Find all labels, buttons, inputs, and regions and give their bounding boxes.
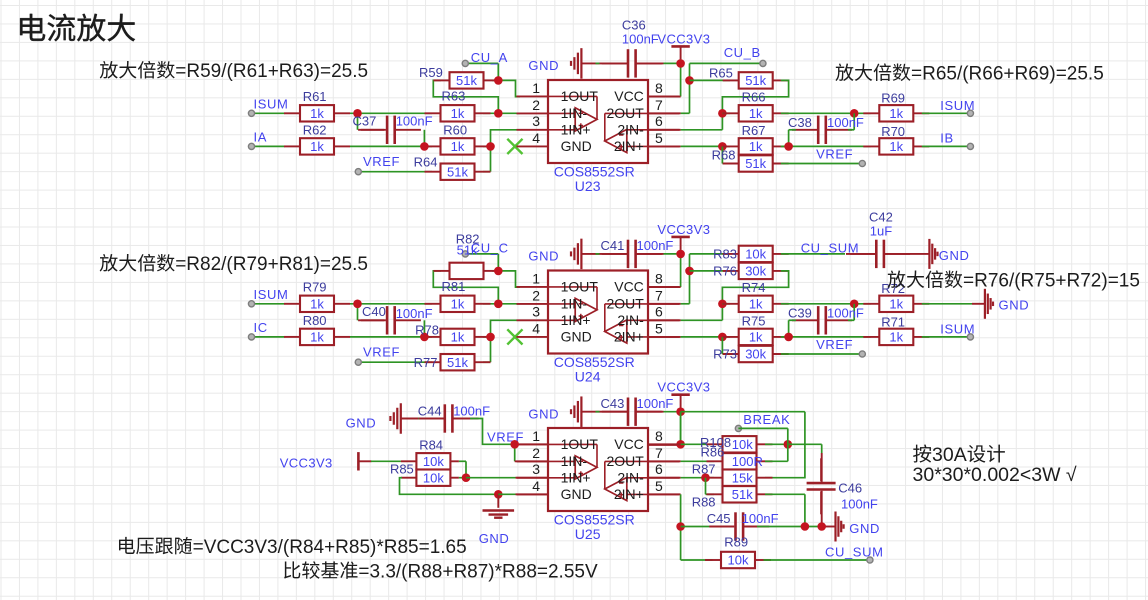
svg-text:U24: U24 xyxy=(575,369,601,385)
svg-text:2: 2 xyxy=(532,287,540,303)
svg-text:VREF: VREF xyxy=(363,154,400,169)
svg-text:C46: C46 xyxy=(838,480,862,495)
svg-text:U23: U23 xyxy=(575,178,601,194)
svg-text:C38: C38 xyxy=(788,115,812,130)
svg-text:1k: 1k xyxy=(310,296,324,311)
svg-text:1k: 1k xyxy=(889,139,903,154)
svg-text:GND: GND xyxy=(561,329,592,345)
svg-text:C36: C36 xyxy=(622,17,646,32)
svg-text:2OUT: 2OUT xyxy=(606,296,644,312)
svg-text:7: 7 xyxy=(655,445,663,461)
svg-text:3: 3 xyxy=(532,461,540,477)
svg-text:CU_SUM: CU_SUM xyxy=(825,545,884,560)
svg-text:R84: R84 xyxy=(419,438,443,453)
svg-text:1k: 1k xyxy=(889,330,903,345)
svg-text:30*30*0.002<3W √: 30*30*0.002<3W √ xyxy=(913,464,1077,486)
svg-text:100nF: 100nF xyxy=(637,238,674,253)
svg-text:1IN-: 1IN- xyxy=(561,453,588,469)
svg-text:U25: U25 xyxy=(575,526,601,542)
svg-text:10k: 10k xyxy=(732,437,753,452)
svg-text:VREF: VREF xyxy=(816,337,853,352)
svg-text:R63: R63 xyxy=(442,89,466,104)
svg-text:1IN+: 1IN+ xyxy=(561,470,591,486)
svg-text:30A: 30A xyxy=(932,444,967,466)
svg-text:100R: 100R xyxy=(732,454,763,469)
svg-text:51k: 51k xyxy=(732,487,753,502)
svg-text:GND: GND xyxy=(999,297,1030,312)
svg-text:10k: 10k xyxy=(728,553,749,568)
svg-text:CU_B: CU_B xyxy=(724,45,761,60)
svg-text:=R76/(R75+R72)=15: =R76/(R75+R72)=15 xyxy=(963,271,1140,292)
svg-text:100nF: 100nF xyxy=(396,114,433,129)
svg-text:51k: 51k xyxy=(745,156,766,171)
svg-text:R65: R65 xyxy=(709,66,733,81)
svg-text:1: 1 xyxy=(532,80,540,96)
svg-text:8: 8 xyxy=(655,80,663,96)
svg-text:R78: R78 xyxy=(415,322,439,337)
svg-text:R70: R70 xyxy=(881,124,905,139)
svg-text:1k: 1k xyxy=(310,330,324,345)
svg-text:R66: R66 xyxy=(742,90,766,105)
svg-text:GND: GND xyxy=(849,521,880,536)
svg-text:R73: R73 xyxy=(713,347,737,362)
svg-text:=R65/(R66+R69)=25.5: =R65/(R66+R69)=25.5 xyxy=(911,64,1104,85)
svg-text:IA: IA xyxy=(254,129,267,144)
svg-text:10k: 10k xyxy=(423,470,444,485)
svg-text:7: 7 xyxy=(655,287,663,303)
svg-text:GND: GND xyxy=(346,416,377,431)
svg-text:R64: R64 xyxy=(414,155,438,170)
svg-text:1k: 1k xyxy=(310,106,324,121)
svg-text:51k: 51k xyxy=(447,355,468,370)
svg-text:1k: 1k xyxy=(451,296,465,311)
svg-text:100nF: 100nF xyxy=(841,497,878,512)
svg-text:VCC3V3: VCC3V3 xyxy=(280,455,333,470)
svg-text:2OUT: 2OUT xyxy=(606,453,644,469)
svg-text:1: 1 xyxy=(532,270,540,286)
svg-text:8: 8 xyxy=(655,270,663,286)
svg-text:R60: R60 xyxy=(443,122,467,137)
svg-text:ISUM: ISUM xyxy=(254,287,289,302)
svg-text:R77: R77 xyxy=(414,355,438,370)
svg-text:6: 6 xyxy=(655,113,663,129)
svg-text:IB: IB xyxy=(940,131,953,146)
svg-text:GND: GND xyxy=(528,249,559,264)
svg-text:R82: R82 xyxy=(456,232,480,247)
svg-text:30k: 30k xyxy=(745,347,766,362)
svg-text:30k: 30k xyxy=(745,264,766,279)
svg-text:VCC: VCC xyxy=(614,88,644,104)
svg-text:R59: R59 xyxy=(419,65,443,80)
svg-text:1IN-: 1IN- xyxy=(561,296,588,312)
svg-text:1OUT: 1OUT xyxy=(561,436,599,452)
svg-text:4: 4 xyxy=(532,478,540,494)
svg-text:C37: C37 xyxy=(353,114,377,129)
svg-text:15k: 15k xyxy=(732,470,753,485)
svg-text:VREF: VREF xyxy=(487,429,524,444)
svg-text:100nF: 100nF xyxy=(637,396,674,411)
svg-text:ISUM: ISUM xyxy=(254,96,289,111)
svg-text:3: 3 xyxy=(532,304,540,320)
svg-text:C40: C40 xyxy=(362,304,386,319)
svg-text:2IN+: 2IN+ xyxy=(614,138,644,154)
svg-text:VREF: VREF xyxy=(816,147,853,162)
svg-text:100nF: 100nF xyxy=(827,115,864,130)
svg-text:1OUT: 1OUT xyxy=(561,279,599,295)
svg-text:ISUM: ISUM xyxy=(940,98,975,113)
svg-text:4: 4 xyxy=(532,130,540,146)
svg-text:CU_SUM: CU_SUM xyxy=(801,241,860,256)
svg-text:1k: 1k xyxy=(451,106,465,121)
svg-text:R85: R85 xyxy=(390,461,414,476)
svg-text:1k: 1k xyxy=(451,330,465,345)
svg-text:GND: GND xyxy=(528,406,559,421)
svg-text:2IN-: 2IN- xyxy=(617,312,644,328)
svg-text:10k: 10k xyxy=(745,247,766,262)
svg-text:IC: IC xyxy=(254,320,268,335)
svg-text:R61: R61 xyxy=(303,89,327,104)
svg-text:1k: 1k xyxy=(749,106,763,121)
svg-text:7: 7 xyxy=(655,97,663,113)
svg-text:2OUT: 2OUT xyxy=(606,105,644,121)
svg-text:100nF: 100nF xyxy=(622,31,659,46)
svg-text:R87: R87 xyxy=(692,462,716,477)
svg-text:5: 5 xyxy=(655,130,663,146)
svg-text:1k: 1k xyxy=(889,296,903,311)
svg-text:R79: R79 xyxy=(303,280,327,295)
svg-text:100nF: 100nF xyxy=(453,403,490,418)
svg-text:GND: GND xyxy=(561,486,592,502)
svg-text:C45: C45 xyxy=(707,511,731,526)
svg-text:R83: R83 xyxy=(713,247,737,262)
svg-text:10k: 10k xyxy=(423,454,444,469)
svg-text:4: 4 xyxy=(532,320,540,336)
svg-text:51k: 51k xyxy=(456,73,477,88)
svg-text:R71: R71 xyxy=(881,314,905,329)
svg-text:1IN+: 1IN+ xyxy=(561,312,591,328)
svg-text:=3.3/(R88+R87)*R88=2.55V: =3.3/(R88+R87)*R88=2.55V xyxy=(358,561,598,582)
svg-text:=VCC3V3/(R84+R85)*R85=1.65: =VCC3V3/(R84+R85)*R85=1.65 xyxy=(193,537,467,558)
svg-text:R80: R80 xyxy=(303,313,327,328)
svg-text:1k: 1k xyxy=(310,139,324,154)
svg-text:=R82/(R79+R81)=25.5: =R82/(R79+R81)=25.5 xyxy=(175,254,368,275)
svg-text:100nF: 100nF xyxy=(742,511,779,526)
svg-text:R68: R68 xyxy=(712,148,736,163)
svg-text:R75: R75 xyxy=(742,313,766,328)
svg-text:1k: 1k xyxy=(749,296,763,311)
svg-text:VCC3V3: VCC3V3 xyxy=(657,222,710,237)
svg-text:100nF: 100nF xyxy=(827,306,864,321)
svg-text:51k: 51k xyxy=(745,73,766,88)
svg-text:VCC: VCC xyxy=(614,436,644,452)
svg-text:VCC: VCC xyxy=(614,279,644,295)
svg-text:R88: R88 xyxy=(692,494,716,509)
svg-text:1uF: 1uF xyxy=(870,224,892,239)
svg-text:C39: C39 xyxy=(788,306,812,321)
svg-text:1: 1 xyxy=(532,428,540,444)
svg-text:ISUM: ISUM xyxy=(940,322,975,337)
svg-text:C41: C41 xyxy=(601,238,625,253)
svg-text:R62: R62 xyxy=(303,122,327,137)
svg-text:R76: R76 xyxy=(713,264,737,279)
svg-text:3: 3 xyxy=(532,113,540,129)
svg-text:GND: GND xyxy=(528,58,559,73)
svg-text:GND: GND xyxy=(479,531,510,546)
svg-text:6: 6 xyxy=(655,461,663,477)
svg-text:1k: 1k xyxy=(889,106,903,121)
svg-text:R67: R67 xyxy=(742,123,766,138)
svg-text:2: 2 xyxy=(532,97,540,113)
svg-text:R74: R74 xyxy=(742,280,766,295)
svg-text:R89: R89 xyxy=(724,534,748,549)
svg-text:1OUT: 1OUT xyxy=(561,88,599,104)
svg-text:C43: C43 xyxy=(601,396,625,411)
svg-text:5: 5 xyxy=(655,478,663,494)
svg-text:VREF: VREF xyxy=(363,344,400,359)
svg-text:GND: GND xyxy=(561,138,592,154)
svg-text:2IN+: 2IN+ xyxy=(614,329,644,345)
svg-text:100nF: 100nF xyxy=(396,306,433,321)
svg-text:6: 6 xyxy=(655,304,663,320)
svg-text:2IN-: 2IN- xyxy=(617,470,644,486)
svg-text:R81: R81 xyxy=(442,279,466,294)
svg-text:=R59/(R61+R63)=25.5: =R59/(R61+R63)=25.5 xyxy=(175,61,368,82)
svg-text:2IN-: 2IN- xyxy=(617,122,644,138)
svg-text:GND: GND xyxy=(939,248,970,263)
svg-text:1IN-: 1IN- xyxy=(561,105,588,121)
svg-text:R69: R69 xyxy=(881,91,905,106)
svg-text:VCC3V3: VCC3V3 xyxy=(657,31,710,46)
svg-text:51k: 51k xyxy=(447,164,468,179)
svg-text:BREAK: BREAK xyxy=(743,412,790,427)
svg-text:1IN+: 1IN+ xyxy=(561,122,591,138)
svg-text:8: 8 xyxy=(655,428,663,444)
svg-text:5: 5 xyxy=(655,320,663,336)
svg-text:2: 2 xyxy=(532,445,540,461)
svg-text:C42: C42 xyxy=(869,210,893,225)
svg-text:VCC3V3: VCC3V3 xyxy=(657,380,710,395)
svg-text:1k: 1k xyxy=(451,139,465,154)
svg-text:2IN+: 2IN+ xyxy=(614,486,644,502)
svg-text:C44: C44 xyxy=(418,403,442,418)
svg-text:R86: R86 xyxy=(701,444,725,459)
svg-text:CU_A: CU_A xyxy=(471,50,508,65)
svg-text:1k: 1k xyxy=(749,139,763,154)
svg-text:1k: 1k xyxy=(749,330,763,345)
